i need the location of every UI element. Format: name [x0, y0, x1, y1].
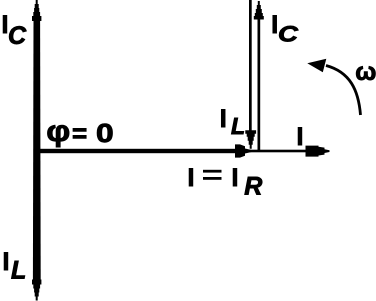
arrowhead down (left vertical arrow, bottom)	[32, 280, 41, 301]
curved arrow for omega (rotation direction)	[326, 66, 361, 116]
svg-text:φ: φ	[46, 114, 70, 148]
svg-text:R: R	[244, 172, 262, 200]
arrowhead up (left vertical arrow, top)	[32, 0, 41, 21]
svg-text:0: 0	[96, 120, 114, 149]
phasor I_C / I_L left: vertical double-headed arrow shaft	[33, 20, 41, 281]
svg-text:I: I	[188, 164, 195, 192]
arrowhead of I = I_R	[235, 144, 252, 157]
svg-text:C: C	[278, 22, 299, 47]
phasor I_L right pair (vertical line pointing down to axis)	[249, 0, 252, 132]
svg-text:I: I	[297, 123, 304, 151]
svg-text:ω: ω	[355, 58, 376, 86]
label equals sign of I = I_R (wide)	[203, 170, 222, 173]
svg-text:I: I	[220, 105, 227, 133]
svg-text:=: =	[72, 118, 87, 148]
horizontal axis I (thin line)	[34, 150, 307, 153]
phasor I = I_R (thick horizontal arrow)	[34, 149, 237, 153]
phasor I_C right pair (vertical line pointing up)	[258, 18, 261, 152]
axis arrowhead right	[306, 146, 330, 157]
arrowhead up (I_C right)	[254, 1, 264, 20]
svg-text:L: L	[11, 257, 26, 285]
svg-text:I: I	[3, 248, 10, 276]
svg-text:C: C	[8, 22, 27, 50]
svg-text:I: I	[232, 164, 239, 192]
svg-text:L: L	[231, 113, 245, 139]
arrowhead of curved omega arrow	[307, 59, 326, 73]
arrowhead down (I_L right)	[245, 130, 256, 149]
